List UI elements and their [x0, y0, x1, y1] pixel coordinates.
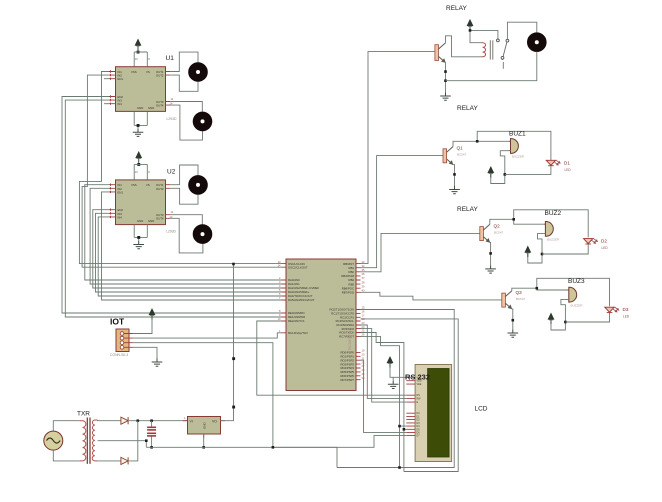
wire secondary bottom tap to diode [98, 460, 121, 462]
wire BUZ1 bottom pin loop [491, 151, 511, 184]
AC source sine [47, 438, 61, 443]
wire PIC RC7 via left loop to LCD D4 [361, 336, 407, 467]
LED D3 [605, 307, 619, 313]
ground below U1 [133, 129, 144, 137]
U1 left pin stubs [109, 70, 116, 105]
svg-text:U1: U1 [166, 55, 175, 62]
op-amp U1 (L293D motor driver) body [116, 67, 166, 112]
node supply junction U1 [137, 51, 140, 54]
svg-text:RD7/PSP7: RD7/PSP7 [340, 378, 354, 382]
wire U1 VSS/VS supply box [134, 52, 147, 67]
svg-text:BUZZER: BUZZER [512, 155, 525, 159]
node D4 tap junction [398, 425, 401, 428]
svg-text:L293D: L293D [167, 117, 178, 121]
wire U2.EN2 to PIC RA2 [93, 210, 282, 288]
wire PIC RC0 loop around LCD right [337, 310, 454, 468]
connector J1 pin stubs [124, 334, 133, 348]
wire relay contact dangle [502, 62, 504, 69]
svg-text:BC547: BC547 [494, 231, 504, 235]
op-amp U2 (L293D motor driver) body [116, 180, 166, 225]
wire U1.IN4 dangling stub [104, 103, 109, 105]
wire relay motor bottom to emitter [446, 52, 537, 81]
wire Q2 emitter to ground [489, 242, 492, 265]
ground below Q1 [449, 186, 460, 194]
svg-text:37: 37 [362, 276, 365, 280]
svg-text:D2: D2 [601, 239, 607, 244]
wire Q2 collector net [490, 210, 588, 238]
node Q2 emitter dot [489, 252, 492, 255]
PIC left pin names [288, 262, 319, 335]
U2 left pin stubs [109, 184, 116, 219]
node BUZ3 loop junction [564, 321, 567, 324]
regulator pin stubs [183, 421, 225, 438]
node Q1 collector junction [476, 140, 479, 143]
display LCD1 screen [428, 369, 450, 458]
svg-text:LCD: LCD [475, 406, 488, 413]
LCD pin stubs [406, 377, 415, 435]
node Q1 emitter dot [453, 173, 456, 176]
wire BUZ2 bottom pin loop [528, 234, 546, 263]
node supply junction U2 [137, 163, 140, 166]
relay switch blade [502, 42, 507, 60]
wire IOT pin1 to power [133, 320, 153, 334]
node BUZ2 loop junction [541, 253, 544, 256]
svg-text:OUT2: OUT2 [156, 74, 164, 78]
relay RL1 coil [482, 43, 486, 57]
transformer TR1 primary winding [80, 421, 86, 461]
svg-text:RELAY: RELAY [446, 5, 467, 12]
wire U2.IN1 to PIC RA0 [85, 185, 282, 280]
svg-text:MCLR/Vpp/THV: MCLR/Vpp/THV [288, 331, 308, 335]
node loop-rail junction [398, 466, 401, 469]
U2 right pin stubs [166, 185, 171, 219]
svg-text:LED: LED [565, 168, 572, 172]
wire U1 OUT3 to motor2 [170, 102, 202, 113]
svg-text:CONN-SIL3: CONN-SIL3 [110, 353, 128, 357]
svg-text:IN4: IN4 [118, 215, 123, 219]
relay switch common circle [506, 39, 509, 42]
wire PIC RC3 loop around LCD right [361, 319, 459, 472]
svg-text:RS 232: RS 232 [405, 373, 430, 382]
svg-text:VS: VS [146, 70, 150, 74]
svg-text:GND: GND [148, 219, 154, 223]
svg-text:8: 8 [148, 170, 150, 174]
diode D4 top [121, 417, 128, 424]
LCD pin names [417, 376, 422, 437]
wire U1.EN2 to PIC RE0 [62, 97, 282, 314]
svg-text:11: 11 [171, 97, 174, 101]
svg-text:BUZ2: BUZ2 [545, 210, 562, 217]
wire D2 cathode to rail [542, 244, 588, 254]
node D5 tap junction [403, 428, 406, 431]
svg-text:Q1: Q1 [457, 146, 464, 151]
svg-text:LED: LED [602, 246, 609, 250]
svg-text:VI: VI [190, 420, 193, 424]
node BUZ1 loop junction [504, 173, 507, 176]
microcontroller U5 PIC16F877A body [286, 259, 356, 391]
wire relay Q base from PIC RB0 [361, 52, 435, 264]
svg-text:RC7/RX/DT: RC7/RX/DT [339, 335, 354, 339]
node Q2 collector junction [512, 218, 515, 221]
svg-text:11: 11 [171, 210, 174, 214]
svg-text:BC547: BC547 [457, 153, 467, 157]
transistor Q1 [443, 147, 453, 165]
svg-text:GND: GND [137, 106, 143, 110]
svg-text:38: 38 [362, 280, 365, 284]
buzzer BUZ2 [544, 222, 553, 237]
wire Q3 collector net [512, 278, 610, 306]
wire U2 OUT3 to motor4 [170, 215, 202, 225]
svg-text:OUT4: OUT4 [156, 217, 164, 221]
svg-text:IN4: IN4 [118, 102, 123, 106]
node Q3 collector junction [536, 287, 539, 290]
wire U2 OUT1 to motor3 bracket [170, 165, 198, 185]
wire IOT pin3 under PIC to LCD D7 [133, 343, 407, 448]
wire relay pole to motor top [507, 22, 536, 39]
relay switch pole circle [497, 39, 500, 42]
power +5V arrow LCD [387, 357, 393, 368]
svg-text:39: 39 [362, 284, 365, 288]
svg-text:LED: LED [623, 315, 630, 319]
svg-text:VSS: VSS [131, 70, 137, 74]
PIC right pin stubs [356, 264, 361, 380]
wire U1.IN1 to PIC OSC1 via bus jog [79, 72, 281, 264]
relay switch contact circle [501, 56, 504, 59]
motor M3 [189, 176, 208, 195]
power +5V arrow Q2 block [525, 246, 531, 257]
U1 right pin stubs [166, 72, 171, 106]
regulator U3 7805 body [188, 417, 221, 435]
wire PIC RC4 riser to LCD RW [361, 325, 407, 398]
wire Q3 base staircase from PIC RB7 [361, 292, 502, 300]
power +5V arrow above U1 [135, 39, 141, 50]
wire U2 VSS/VS supply box [134, 164, 147, 180]
svg-text:36: 36 [362, 272, 365, 276]
motor M2 [193, 112, 212, 131]
svg-text:GND: GND [137, 219, 143, 223]
wire diode D4 out to regulator [129, 420, 187, 422]
svg-text:20: 20 [362, 353, 365, 357]
svg-text:1: 1 [184, 416, 186, 420]
buzzer BUZ1 [509, 139, 518, 154]
node mid tap junction [145, 439, 148, 442]
wire LCD power to VDD [390, 368, 406, 378]
svg-text:Q2: Q2 [494, 224, 501, 229]
wire PIC RE2 under chip to LCD RS [257, 321, 407, 395]
svg-text:TXR: TXR [77, 411, 90, 418]
svg-text:VSS: VSS [131, 183, 137, 187]
motor M4 [193, 225, 212, 244]
wire Q1 emitter to ground [453, 165, 455, 186]
node +5 rail at OSC junction [232, 263, 235, 266]
capacitor C2 [147, 433, 156, 436]
svg-text:VS: VS [146, 183, 150, 187]
svg-text:OUT4: OUT4 [156, 103, 164, 107]
svg-text:GND: GND [148, 106, 154, 110]
node ground rail IOT-wire junction [272, 446, 275, 449]
svg-text:L293D: L293D [166, 230, 177, 234]
svg-text:17: 17 [362, 314, 365, 318]
motor M5 (relay motor) [528, 33, 547, 52]
ground below U2 [133, 241, 144, 249]
node U2 ground junction [137, 236, 140, 239]
wire U2.EN1 to PIC RA5 [102, 192, 282, 300]
diode D5 bottom [121, 457, 128, 464]
node relay emitter junction [444, 70, 447, 73]
wire BUZ3 bottom pin loop [551, 299, 569, 330]
node cap bottom junction [150, 446, 153, 449]
wire secondary top tap to diode [98, 419, 121, 422]
svg-text:16: 16 [362, 310, 365, 314]
transistor Q3 [502, 291, 512, 309]
wire PIC RD2 to LCD D6 [361, 360, 407, 432]
svg-text:8: 8 [148, 57, 150, 61]
wire U1 OUT4 to motor2 [170, 105, 202, 140]
connector J1 pin circles [120, 332, 124, 349]
wire U1.IN3 to PIC RE1 [65, 100, 281, 317]
svg-text:RE2/AN7/CS: RE2/AN7/CS [288, 319, 304, 323]
LED D2 [584, 238, 598, 244]
PIC right pin numbers [362, 260, 365, 380]
svg-text:IOT: IOT [110, 317, 125, 327]
svg-text:GND: GND [203, 422, 207, 430]
node +5 rail junction [232, 357, 235, 360]
svg-text:Q3: Q3 [516, 290, 523, 295]
transistor Q2 [480, 224, 490, 242]
node Q3 emitter dot [512, 319, 515, 322]
wire Q1 base from PIC RB1 [361, 156, 444, 268]
wire LCD ground stub [392, 377, 394, 381]
svg-text:BUZ3: BUZ3 [568, 278, 585, 285]
wire secondary mid tap [98, 421, 152, 448]
svg-text:BUZ1: BUZ1 [509, 131, 526, 138]
svg-text:VEE: VEE [417, 383, 422, 386]
wire Q1 collector net [453, 131, 551, 160]
svg-text:BUZZER: BUZZER [571, 304, 584, 308]
wire D3 cathode to rail [565, 313, 609, 322]
node regulator gnd junction [202, 446, 205, 449]
svg-text:D1: D1 [564, 161, 570, 166]
svg-text:D3: D3 [623, 307, 629, 312]
wire U1 OUT2 to motor bracket [170, 75, 198, 91]
node relay power junction [469, 29, 472, 32]
svg-text:PIC16F877A: PIC16F877A [348, 330, 352, 350]
ground below Q3 [508, 330, 519, 338]
wire PIC RC5 riser to LCD E [361, 329, 407, 403]
wire relay power stem [470, 30, 498, 42]
wire U2 OUT4 to motor4 [170, 218, 203, 253]
node +5 rail lower junction [232, 406, 235, 409]
wire ground rail to LCD loop [146, 447, 337, 467]
motor M1 [189, 63, 208, 82]
node diode join junction [137, 419, 140, 422]
wire D1 cathode to rail [505, 166, 551, 175]
wire U2 GND box [134, 225, 147, 241]
display LCD1 LM016L body [415, 365, 452, 462]
svg-text:OUT2: OUT2 [156, 187, 164, 191]
power +5V arrow IOT [149, 309, 155, 320]
wire regulator output to +5 rail [221, 264, 234, 421]
PIC left pin numbers [278, 260, 281, 333]
wire source top to transformer [53, 421, 79, 431]
power +5V arrow relay [467, 20, 473, 31]
wire U2.IN2 to PIC RA1 [90, 188, 281, 284]
wire relay Q emitter down [445, 63, 447, 93]
LED D1 [546, 160, 560, 166]
transformer TR1 core [87, 418, 90, 464]
relay core bars [490, 40, 493, 59]
wire Q3 emitter to ground [512, 309, 513, 330]
wire U1.IN2 to PIC OSC2 via bus jog [82, 75, 281, 267]
wire U2.IN3 to PIC RA3 [96, 213, 282, 292]
node relay emitter-motor junction [444, 79, 447, 82]
wire U1 OUT1 to motor bracket [170, 52, 198, 71]
ground below Q2 [485, 265, 496, 273]
svg-text:EN1: EN1 [118, 190, 124, 194]
PIC left pin stubs [282, 264, 287, 333]
connector J1 CONN-SIL4 body [116, 329, 129, 352]
transistor Q4 (relay driver) [435, 43, 446, 63]
svg-text:EN1: EN1 [118, 77, 124, 81]
ground below relay transistor [440, 93, 451, 101]
wire Q2 base from PIC RB2 [361, 233, 480, 271]
svg-text:VO: VO [212, 420, 217, 424]
wire U1.EN1 dangling stub [104, 78, 109, 80]
capacitor C1 [147, 427, 156, 430]
svg-text:RELAY: RELAY [457, 105, 478, 112]
PIC right pin names [329, 262, 354, 382]
power +5V arrow above U2 [136, 152, 142, 163]
svg-text:19: 19 [362, 349, 365, 353]
power +5V arrow Q3 block [548, 313, 554, 324]
AC source V1 [44, 431, 63, 450]
svg-text:OSC2/CLKOUT: OSC2/CLKOUT [288, 265, 308, 269]
svg-text:BUZZER: BUZZER [547, 238, 560, 242]
wire U2 OUT2 to motor3 bracket [170, 188, 198, 204]
wire source bottom to transformer [53, 450, 79, 461]
svg-text:16: 16 [135, 170, 138, 174]
wire relay Q collector [446, 36, 482, 57]
wire U1 GND box [134, 111, 147, 128]
node U1 ground junction [137, 124, 140, 127]
ground below IOT [152, 359, 163, 367]
wire regulator ground to rail [203, 434, 205, 447]
svg-text:RELAY: RELAY [457, 206, 478, 213]
ground at LCD [388, 381, 399, 389]
wire arrow stem to U2 supply box [138, 163, 140, 165]
wire IOT pin4 to ground [133, 347, 158, 358]
node cap top junction [150, 419, 153, 422]
svg-text:RA5/AN4/SS/C2OUT: RA5/AN4/SS/C2OUT [288, 298, 315, 302]
svg-text:BC547: BC547 [516, 297, 526, 301]
svg-text:16: 16 [135, 57, 138, 61]
power +5V arrow Q1 block [488, 167, 494, 178]
svg-text:U2: U2 [167, 169, 176, 176]
buzzer BUZ3 [568, 287, 577, 302]
svg-text:RB7/PGD: RB7/PGD [342, 291, 354, 295]
wire IOT pin2 to PIC MCLR [133, 333, 282, 338]
transformer TR1 secondary winding [92, 420, 97, 461]
wire U2.IN4 to PIC RA4 [98, 217, 281, 296]
wire arrow stem to U1 supply box [137, 50, 139, 52]
wire diode D5 out up to rail [129, 421, 138, 461]
wire PIC RC6 via left loop to LCD D5 [361, 333, 407, 472]
